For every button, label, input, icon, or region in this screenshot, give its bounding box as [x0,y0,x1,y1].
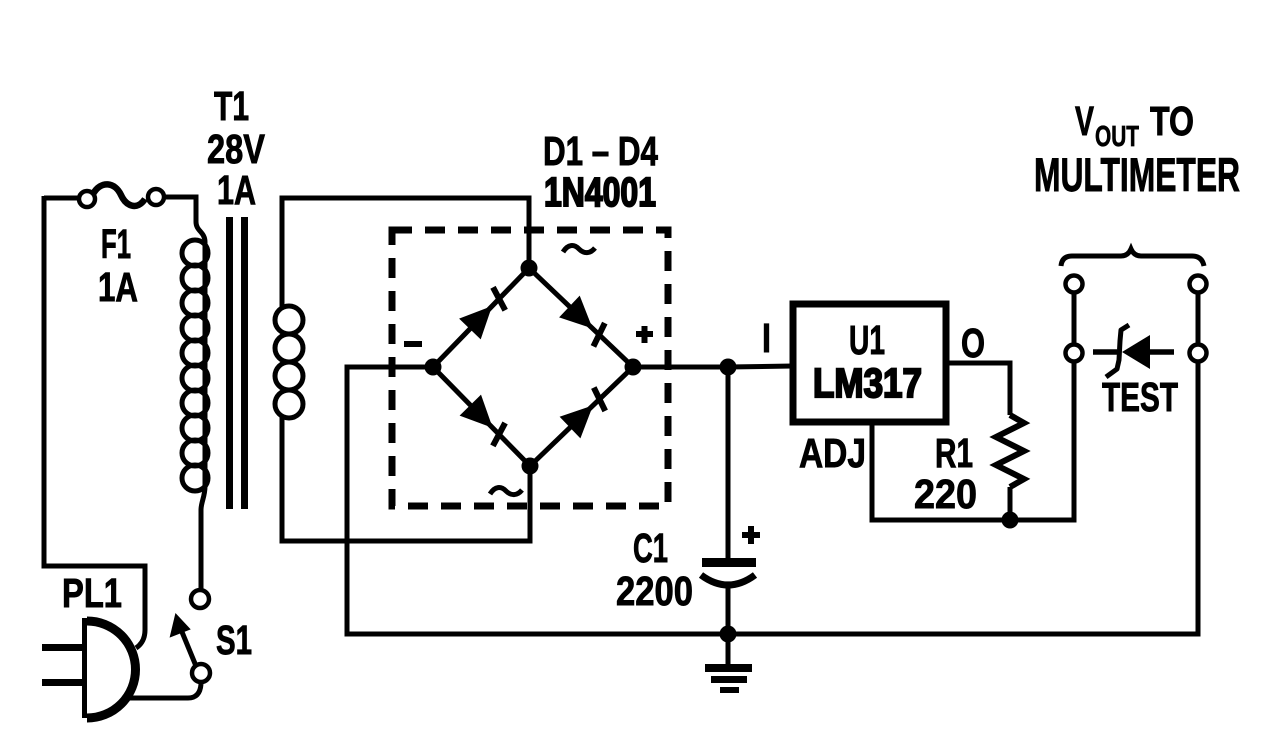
svg-text:TO: TO [1150,98,1194,144]
svg-text:D1 – D4: D1 – D4 [543,128,658,174]
svg-text:R1: R1 [935,430,973,476]
svg-text:LM317: LM317 [813,360,922,406]
svg-text:220: 220 [914,471,977,517]
svg-text:T1: T1 [214,83,249,129]
svg-text:1A: 1A [98,264,138,310]
svg-text:PL1: PL1 [62,570,122,616]
svg-text:O: O [961,320,985,366]
svg-text:TEST: TEST [1102,374,1178,420]
svg-text:MULTIMETER: MULTIMETER [1034,148,1240,201]
svg-text:2200: 2200 [616,568,693,614]
svg-text:S1: S1 [216,617,252,663]
svg-text:I: I [762,315,771,361]
svg-text:C1: C1 [633,525,668,571]
svg-text:F1: F1 [101,221,131,267]
svg-text:1A: 1A [217,167,256,213]
svg-text:1N4001: 1N4001 [544,169,656,215]
svg-text:ADJ: ADJ [799,430,866,476]
svg-text:V: V [1075,98,1094,144]
svg-text:28V: 28V [207,126,266,172]
svg-text:U1: U1 [849,317,885,363]
